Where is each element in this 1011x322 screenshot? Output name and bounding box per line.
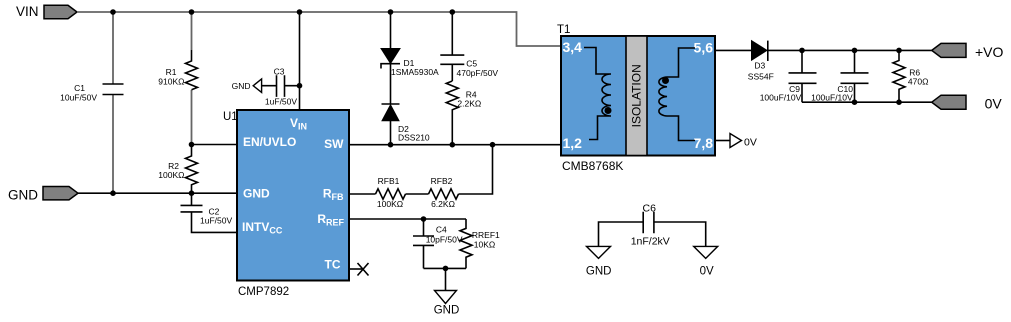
capacitor C4	[413, 219, 434, 268]
wire RFB1 to RFB2	[406, 193, 429, 195]
svg-text:6.2KΩ: 6.2KΩ	[431, 199, 455, 209]
junction SW-D2	[388, 142, 394, 148]
junction C4-GND	[443, 266, 449, 272]
svg-text:0V: 0V	[744, 137, 757, 149]
secondary polarity dot	[662, 77, 669, 84]
svg-text:CMP7892: CMP7892	[238, 286, 289, 298]
wire EN/UVLO to node	[192, 144, 238, 146]
svg-text:C6: C6	[643, 203, 657, 215]
terminal VIN	[44, 5, 77, 18]
ground symbol below C4	[435, 291, 457, 304]
capacitor C1	[103, 12, 124, 193]
wire GND stem below C4	[445, 268, 447, 290]
junction R1-R2-EN	[189, 142, 195, 148]
svg-text:VIN: VIN	[16, 4, 39, 19]
svg-text:1uF/50V: 1uF/50V	[200, 216, 232, 226]
resistor R4	[446, 81, 458, 145]
junction GND-R2	[189, 190, 195, 196]
svg-text:D3: D3	[754, 61, 765, 71]
capacitor C6	[599, 212, 706, 247]
junction 0V-C10	[852, 99, 858, 105]
node 0V symbol below C6 right	[694, 246, 718, 258]
terminal 0V	[932, 95, 966, 109]
svg-text:5,6: 5,6	[694, 40, 714, 56]
svg-text:100KΩ: 100KΩ	[158, 170, 184, 180]
svg-text:TC: TC	[325, 258, 341, 272]
wire +VO rail	[768, 49, 932, 51]
ground symbol at C3	[253, 79, 261, 92]
svg-text:100uF/10V: 100uF/10V	[760, 93, 802, 103]
junction GND-C1	[110, 190, 116, 196]
resistor R6	[893, 50, 905, 102]
wire 0V rail	[802, 101, 932, 103]
diode D1 zener	[381, 12, 400, 69]
svg-text:GND: GND	[243, 187, 270, 201]
wire VIN pin drop	[299, 12, 301, 110]
junction VIN-C5	[450, 9, 456, 15]
transformer T1 body	[561, 36, 715, 156]
capacitor C10	[841, 50, 869, 102]
svg-text:C3: C3	[274, 67, 285, 77]
wire RFB pin	[349, 193, 376, 195]
svg-text:SW: SW	[324, 137, 344, 151]
terminal GND	[43, 187, 78, 200]
svg-text:1nF/2kV: 1nF/2kV	[631, 236, 670, 248]
wire C4 to RREF1 bottom	[424, 267, 467, 269]
op-amp U1 CMP7892 IC body	[237, 110, 349, 281]
wire VIN rail	[77, 12, 561, 46]
svg-text:SS54F: SS54F	[748, 72, 774, 82]
junction C3 node	[297, 83, 303, 89]
resistor RREF1	[460, 219, 472, 268]
svg-text:3,4: 3,4	[563, 39, 583, 55]
svg-text:GND: GND	[8, 187, 38, 202]
svg-text:RFB1: RFB1	[378, 176, 400, 186]
svg-text:C1: C1	[74, 83, 85, 93]
wire GND rail	[78, 192, 237, 194]
junction SW-RFB2	[490, 142, 496, 148]
wire SW rail	[349, 144, 561, 146]
svg-text:100uF/10V: 100uF/10V	[811, 93, 853, 103]
svg-text:C5: C5	[466, 59, 477, 69]
svg-text:DSS210: DSS210	[398, 133, 430, 143]
svg-text:10pF/50V: 10pF/50V	[426, 235, 463, 245]
svg-text:100KΩ: 100KΩ	[377, 199, 403, 209]
junction VIN-R1	[189, 9, 195, 15]
svg-text:RFB2: RFB2	[431, 176, 453, 186]
no-connect X at TC	[358, 263, 369, 276]
svg-text:GND: GND	[586, 266, 612, 278]
resistor R1	[186, 12, 198, 145]
junction VIN-D1	[388, 9, 394, 15]
resistor RFB2	[429, 189, 459, 199]
junction VIN-C1	[110, 9, 116, 15]
svg-text:1uF/50V: 1uF/50V	[265, 97, 297, 107]
svg-text:T1: T1	[557, 24, 570, 36]
svg-text:0V: 0V	[985, 96, 1003, 112]
svg-text:2.2KΩ: 2.2KΩ	[457, 99, 481, 109]
isolation barrier	[626, 36, 647, 156]
svg-text:+VO: +VO	[975, 44, 1004, 60]
svg-text:ISOLATION: ISOLATION	[630, 64, 644, 127]
junction +VO-C9	[799, 48, 805, 54]
wire 7,8 stub	[715, 140, 730, 142]
junction RREF-C4	[421, 216, 427, 222]
wire RFB2 riser to SW rail	[459, 145, 493, 194]
ground symbol below C6 left	[587, 246, 611, 258]
svg-text:C4: C4	[436, 225, 447, 235]
svg-text:7,8: 7,8	[694, 135, 714, 151]
resistor RFB1	[376, 189, 406, 199]
junction VIN-U1	[297, 9, 303, 15]
junction 0V-R6	[896, 99, 902, 105]
svg-text:1SMA5930A: 1SMA5930A	[391, 67, 439, 77]
svg-text:1,2: 1,2	[563, 135, 583, 151]
capacitor C5	[440, 12, 464, 81]
svg-text:CMB8768K: CMB8768K	[562, 159, 623, 173]
diode D2	[382, 104, 400, 145]
svg-text:GND: GND	[434, 305, 460, 317]
diode D3	[752, 41, 768, 61]
svg-text:U1: U1	[223, 111, 238, 123]
capacitor C2	[181, 193, 238, 232]
capacitor C3	[262, 75, 300, 97]
junction +VO-R6	[896, 48, 902, 54]
svg-text:0V: 0V	[700, 266, 714, 278]
svg-text:R1: R1	[166, 67, 177, 77]
terminal +VO	[932, 43, 966, 57]
junction SW-R4	[450, 142, 456, 148]
svg-text:910KΩ: 910KΩ	[158, 77, 184, 87]
wire D1 to D2	[390, 64, 392, 104]
svg-text:EN/UVLO: EN/UVLO	[243, 135, 296, 149]
capacitor C9	[789, 50, 817, 102]
svg-text:RREF1: RREF1	[472, 230, 500, 240]
svg-text:10KΩ: 10KΩ	[474, 240, 495, 250]
primary polarity dot	[605, 107, 612, 114]
svg-text:470pF/50V: 470pF/50V	[457, 68, 499, 78]
wire 5,6 to D3	[715, 49, 752, 51]
wire RREF pin	[349, 218, 466, 220]
svg-text:GND: GND	[232, 81, 251, 91]
secondary winding of T1	[659, 48, 695, 141]
resistor R2	[186, 145, 198, 194]
svg-text:470Ω: 470Ω	[908, 77, 929, 87]
wire TC stub	[349, 268, 362, 270]
primary winding of T1	[584, 48, 611, 140]
svg-text:10uF/50V: 10uF/50V	[60, 93, 97, 103]
node 0V arrow at 7,8	[730, 134, 742, 148]
junction +VO-C10	[852, 48, 858, 54]
